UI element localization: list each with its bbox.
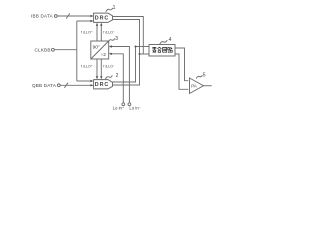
pseudo-kanji KAI xyxy=(163,48,167,53)
arrowhead down into DRC2 xyxy=(96,76,98,79)
wire CLKBB to DRC1 clock input xyxy=(77,20,92,22)
arrowhead up into DRC1 xyxy=(96,23,98,26)
arrowhead into divider lower right xyxy=(109,53,112,55)
svg-text:Lo in⁺: Lo in⁺ xyxy=(113,106,125,111)
wire PA output xyxy=(204,85,212,87)
junction dot lower summing node xyxy=(139,53,141,55)
svg-text:DRC: DRC xyxy=(95,82,109,88)
svg-text:Lo in⁻: Lo in⁻ xyxy=(129,106,141,111)
reference label 5 with leader xyxy=(196,72,206,78)
svg-text:3: 3 xyxy=(115,36,118,42)
wire DRC1 output minus xyxy=(113,20,140,86)
wire divider LO output to DRC1 (180 deg) xyxy=(100,24,102,41)
wire DRC2 output plus xyxy=(113,47,136,83)
arrowhead into DRC1 clock input xyxy=(90,20,93,22)
wire divider LO output to DRC2 (270 deg) xyxy=(100,59,102,78)
svg-text:QBB DATA: QBB DATA xyxy=(32,83,57,88)
svg-text:4: 4 xyxy=(169,37,172,43)
arrowhead into divider upper right xyxy=(109,45,112,47)
wire matching circuit lower output to PA xyxy=(175,54,188,89)
svg-text:90°: 90° xyxy=(93,44,100,50)
wire matching circuit upper output to PA xyxy=(175,48,188,81)
svg-text:5: 5 xyxy=(203,72,206,78)
terminal CLKBB xyxy=(52,48,55,51)
svg-text:f d,LO⁻: f d,LO⁻ xyxy=(103,30,115,34)
wire divider LO output to DRC2 (90 deg) xyxy=(96,59,98,78)
terminal IBB DATA xyxy=(54,15,57,18)
wire summing tap upper to matching circuit xyxy=(136,46,150,48)
bus slash on QBB DATA wire xyxy=(64,83,68,88)
pseudo-kanji GOU xyxy=(157,47,161,52)
junction dot upper summing node xyxy=(135,46,137,48)
svg-text:f d,LO⁺: f d,LO⁺ xyxy=(81,64,93,68)
svg-text:DRC: DRC xyxy=(95,16,109,22)
wire Lo in- to divider upper input xyxy=(110,47,129,103)
wire summing tap lower to matching circuit xyxy=(140,53,150,55)
svg-text:f d,LO⁺: f d,LO⁺ xyxy=(81,30,93,34)
block matching circuit (seigou kairo) xyxy=(149,45,175,57)
wire IBB DATA to DRC1 xyxy=(57,15,92,17)
block quadrature divider 90/div2 xyxy=(91,41,109,59)
reference label 4 with leader xyxy=(160,37,172,44)
wire CLKBB horizontal xyxy=(54,49,77,51)
pseudo-kanji RO xyxy=(168,47,172,52)
wire divider LO output to DRC1 (0 deg) xyxy=(96,24,98,41)
wire DRC1 output plus xyxy=(113,17,144,55)
reference label 3 with leader xyxy=(108,36,118,42)
terminal Lo in- xyxy=(128,103,131,106)
wire CLKBB vertical trunk xyxy=(76,21,78,81)
svg-text:2: 2 xyxy=(116,73,119,79)
pseudo-kanji SEI xyxy=(152,47,156,52)
svg-text:PA: PA xyxy=(191,84,197,89)
terminal QBB DATA xyxy=(57,84,60,87)
amplifier PA xyxy=(190,78,204,94)
svg-text:IBB DATA: IBB DATA xyxy=(31,14,54,19)
arrowhead into DRC2 data input xyxy=(90,84,93,86)
wire CLKBB to DRC2 clock input xyxy=(77,80,92,82)
svg-text:÷2: ÷2 xyxy=(101,52,107,58)
terminal Lo in+ xyxy=(122,103,125,106)
block DRC 1 (I-path digital RF converter) xyxy=(94,13,113,22)
reference label 1 with leader xyxy=(106,5,116,12)
reference label 2 with leader xyxy=(105,73,118,79)
wire Lo in+ to divider lower input xyxy=(110,54,123,103)
block DRC 2 (Q-path digital RF converter) xyxy=(94,80,113,89)
svg-text:1: 1 xyxy=(113,5,116,11)
arrowhead into DRC2 clock input xyxy=(90,80,93,82)
arrowhead up into DRC1 xyxy=(100,23,102,26)
arrowhead down into DRC2 xyxy=(100,76,102,79)
wire QBB DATA to DRC2 xyxy=(60,84,92,86)
svg-text:f d,LO⁻: f d,LO⁻ xyxy=(103,64,115,68)
bus slash on IBB DATA wire xyxy=(66,13,70,18)
svg-text:CLKBB: CLKBB xyxy=(35,47,51,52)
arrowhead into DRC1 data input xyxy=(90,15,93,17)
